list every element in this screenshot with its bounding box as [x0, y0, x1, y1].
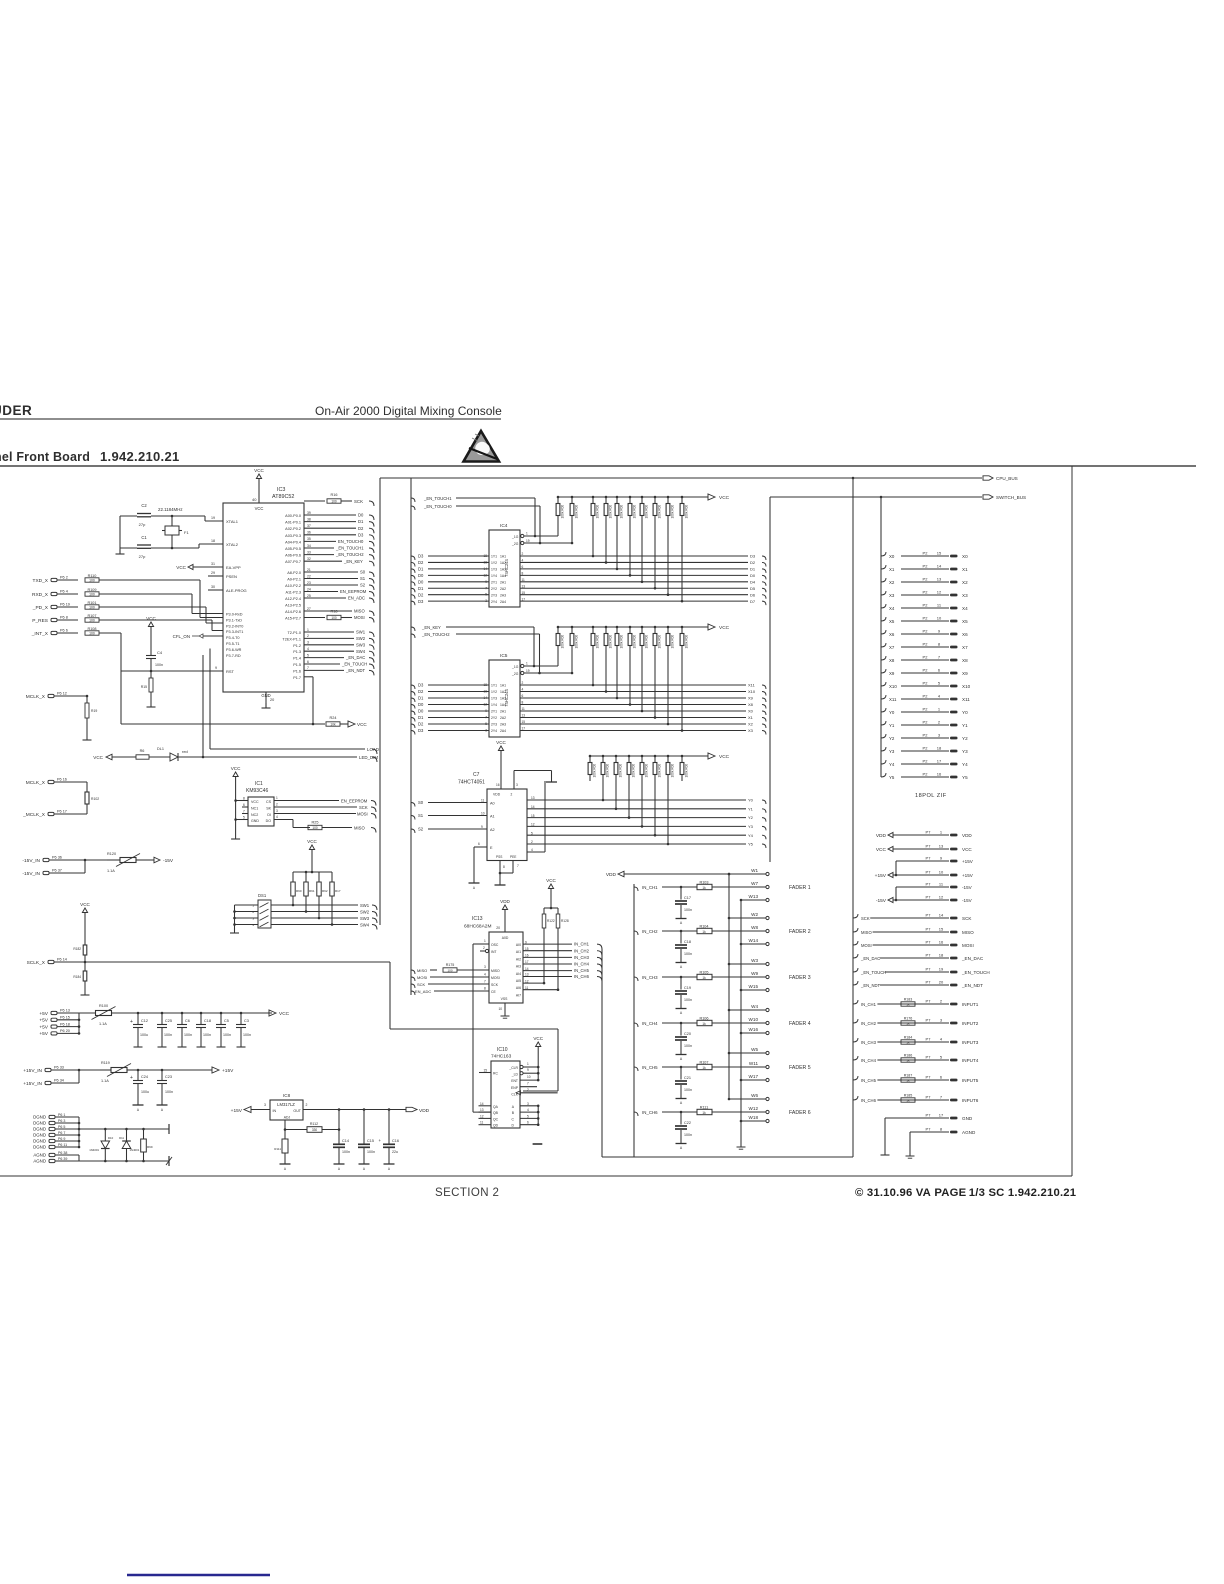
wire C7 bottom pins PSS PEE to ground [499, 861, 501, 886]
svg-text:27p: 27p [139, 554, 146, 559]
wire IC3 P0.4 EN_TOUCH0 [304, 540, 336, 542]
diode D11 1N4001 [126, 1129, 128, 1141]
svg-text:37: 37 [307, 524, 311, 528]
svg-text:P6 17: P6 17 [57, 810, 67, 814]
svg-text:A11-P2.3: A11-P2.3 [285, 591, 301, 595]
svg-text:100n: 100n [164, 1033, 172, 1037]
wire IC3 P2.6 MISO [304, 610, 352, 612]
svg-text:IN_CH6: IN_CH6 [574, 974, 590, 979]
svg-text:INPUT4: INPUT4 [962, 1058, 979, 1063]
wire _EN_KEY into IC5 pin 1 [411, 627, 415, 631]
wire IC3 P2.4 EN_ADC [304, 597, 346, 599]
svg-text:15: 15 [937, 551, 942, 556]
svg-text:+5V: +5V [39, 1011, 48, 1017]
svg-text:7: 7 [527, 1082, 529, 1086]
svg-text:PSEN: PSEN [226, 574, 237, 579]
svg-text:P1.4: P1.4 [293, 657, 301, 661]
svg-text:6: 6 [307, 660, 309, 664]
wire IC3 P2.1 S1 [304, 578, 358, 580]
svg-text:VCC: VCC [496, 740, 506, 745]
svg-text:INPUT1: INPUT1 [962, 1002, 979, 1007]
connector P2 pin 17 row Y4 [881, 760, 886, 764]
svg-text:15: 15 [939, 927, 944, 932]
svg-text:D3: D3 [418, 728, 424, 733]
svg-text:1A2: 1A2 [500, 690, 506, 694]
svg-text:SCK: SCK [861, 916, 870, 921]
svg-text:DO: DO [266, 819, 272, 823]
svg-text:100: 100 [331, 499, 337, 503]
regulator IC8 LM317LZ body [270, 1100, 303, 1120]
svg-text:P6 6: P6 6 [60, 629, 68, 633]
svg-text:Y2: Y2 [748, 815, 754, 820]
svg-text:_EN_KEY: _EN_KEY [343, 559, 363, 564]
wire IC10 ABCD inputs [520, 1105, 538, 1107]
svg-text:_EN_DAC: _EN_DAC [345, 655, 365, 660]
svg-text:100k R00: 100k R00 [609, 635, 613, 649]
svg-text:1A1: 1A1 [500, 555, 506, 559]
svg-text:7: 7 [243, 810, 245, 814]
connector P2 pin 5 row X10 [881, 682, 886, 686]
svg-text:16: 16 [496, 783, 500, 787]
svg-text:15: 15 [483, 1069, 487, 1073]
svg-text:F1: F1 [184, 530, 189, 535]
svg-text:+5V: +5V [39, 1018, 48, 1024]
wire IC4 input D3 [411, 556, 415, 560]
svg-text:C22: C22 [684, 1121, 691, 1125]
wire IC4 output row 5 [520, 587, 748, 589]
svg-text:INPUT5: INPUT5 [962, 1078, 979, 1083]
capacitor C12 [137, 1012, 140, 1015]
svg-text:C23: C23 [165, 1075, 172, 1079]
svg-text:1: 1 [276, 796, 278, 800]
wire IC3 P2.0 S0 [304, 571, 358, 573]
wire IC13 OSC pin down to IC10 [473, 943, 489, 945]
svg-text:IN_CH5: IN_CH5 [574, 968, 590, 973]
svg-text:2A3: 2A3 [500, 593, 506, 597]
resistor R182 [84, 938, 86, 945]
svg-text:MISO: MISO [354, 609, 365, 614]
svg-text:X0: X0 [889, 554, 895, 559]
connector P7 pin 8 AGND [910, 1131, 949, 1133]
svg-text:12: 12 [531, 823, 535, 827]
svg-text:X2: X2 [889, 580, 895, 585]
svg-text:D0: D0 [418, 579, 424, 584]
capacitor C22 on fader 6 input [680, 1112, 682, 1125]
svg-text:FADER 4: FADER 4 [789, 1021, 811, 1027]
capacitor C23 [161, 1069, 164, 1072]
svg-text:22.1184MHz: 22.1184MHz [158, 507, 183, 512]
svg-text:EN_ADC: EN_ADC [415, 989, 431, 994]
wire IC5 input D1 [411, 718, 415, 722]
svg-text:W10: W10 [749, 1017, 759, 1022]
svg-text:IC5: IC5 [500, 653, 508, 659]
svg-text:P6 16: P6 16 [57, 778, 67, 782]
wire IC13 AI5 to IN_CH6 [523, 976, 572, 978]
svg-text:P2: P2 [923, 629, 929, 634]
svg-text:SK: SK [266, 807, 271, 811]
svg-text:W16: W16 [749, 1027, 759, 1032]
svg-text:100k R00: 100k R00 [685, 764, 689, 778]
resistor R16 on SCK line [304, 500, 325, 502]
svg-text:34: 34 [307, 544, 311, 548]
wire IC1 DI MOSI [274, 813, 356, 815]
wire C7 output Y1 [527, 808, 746, 810]
svg-text:+: + [130, 1019, 133, 1025]
svg-text:P2: P2 [923, 564, 929, 569]
svg-text:P6 34: P6 34 [54, 1079, 64, 1083]
svg-text:X6: X6 [962, 632, 968, 637]
svg-text:68HC68A2M: 68HC68A2M [464, 924, 491, 930]
bus SWITCH_BUS line [770, 496, 982, 498]
svg-text:P7: P7 [926, 999, 932, 1004]
svg-text:+5V: +5V [39, 1024, 48, 1030]
svg-text:R186: R186 [904, 1054, 913, 1058]
svg-text:19: 19 [939, 967, 944, 972]
svg-text:1.1A: 1.1A [101, 1079, 109, 1083]
wire crystal left rail and ground [119, 516, 121, 553]
svg-text:VCC: VCC [146, 616, 156, 621]
svg-text:SECTION 2: SECTION 2 [435, 1187, 499, 1199]
svg-text:INPUT6: INPUT6 [962, 1098, 979, 1103]
svg-text:C6: C6 [185, 1019, 190, 1023]
svg-text:R109: R109 [87, 588, 96, 592]
svg-text:_EN_NDT: _EN_NDT [860, 983, 881, 988]
connector P7 pin 2 INPUT1 via R183 [853, 1000, 858, 1004]
ground IC3 pin 20 [265, 692, 267, 708]
svg-text:QD: QD [493, 1124, 499, 1128]
svg-text:2A4: 2A4 [500, 729, 506, 733]
svg-text:100k R00: 100k R00 [658, 635, 662, 649]
svg-text:16: 16 [939, 940, 944, 945]
svg-text:X7: X7 [889, 645, 895, 650]
svg-text:ENT: ENT [511, 1079, 518, 1083]
svg-text:7: 7 [307, 666, 309, 670]
svg-text:D11: D11 [119, 1136, 124, 1140]
wire IC5 output row X11 [520, 684, 746, 686]
svg-text:74HCT4051: 74HCT4051 [458, 780, 485, 786]
svg-text:D3: D3 [750, 554, 756, 559]
svg-text:P2: P2 [923, 720, 929, 725]
wire C7 extra stub pins [527, 851, 545, 853]
svg-text:R15: R15 [141, 685, 147, 689]
wire IC5 output row X2 [520, 723, 746, 725]
svg-text:100u: 100u [140, 1033, 148, 1037]
svg-text:P6 11: P6 11 [58, 1143, 67, 1147]
fader box enclosure [633, 884, 635, 1157]
svg-text:D1: D1 [418, 586, 424, 591]
svg-text:P7: P7 [926, 1127, 932, 1132]
svg-text:P2: P2 [923, 681, 929, 686]
svg-text:D1: D1 [418, 567, 424, 572]
svg-text:A15-P2.7: A15-P2.7 [285, 617, 301, 621]
svg-text:IN_CH6: IN_CH6 [861, 1098, 877, 1103]
svg-text:GND: GND [962, 1116, 973, 1121]
svg-text:W18: W18 [749, 1115, 759, 1120]
svg-text:20: 20 [496, 926, 500, 930]
svg-text:R102: R102 [91, 797, 99, 801]
svg-text:R107: R107 [87, 614, 96, 618]
svg-text:9: 9 [215, 666, 217, 670]
svg-text:S0: S0 [360, 570, 366, 575]
svg-text:10: 10 [939, 870, 944, 875]
wire LOAD line [209, 649, 211, 750]
wire _EN_TOUCH2 into IC5 pin 19 [411, 634, 415, 638]
svg-text:P7: P7 [926, 913, 932, 918]
svg-text:QB: QB [493, 1111, 499, 1115]
svg-text:EA-VPP: EA-VPP [226, 565, 241, 570]
svg-text:100: 100 [89, 606, 95, 610]
svg-text:100n: 100n [684, 998, 692, 1002]
svg-text:X4: X4 [962, 606, 968, 611]
svg-text:1N4001: 1N4001 [89, 1148, 99, 1152]
wire IC3 XTAL1 pin 19 [205, 520, 223, 522]
svg-text:C20: C20 [684, 1032, 691, 1036]
svg-text:AI6: AI6 [516, 986, 521, 990]
bubble IC5 enable pins 1 19 [521, 664, 524, 667]
svg-text:Y4: Y4 [889, 762, 895, 767]
svg-text:2Y2: 2Y2 [491, 587, 497, 591]
svg-text:1Y4: 1Y4 [491, 703, 497, 707]
wire IC1 SK SCK [274, 806, 357, 808]
buffer IC5 74HC244 body [489, 660, 520, 737]
wire IC13 AI1 to IN_CH2 [523, 950, 572, 952]
wire IC3 ALE-PROG pin 30 stub [208, 589, 223, 591]
LED DL1 red [170, 753, 178, 761]
wire IC3 P1.1 SW2 [304, 637, 354, 639]
svg-text:UDER: UDER [0, 403, 32, 418]
svg-text:AI2: AI2 [516, 957, 521, 961]
svg-text:X3: X3 [889, 593, 895, 598]
svg-text:OSC: OSC [491, 943, 499, 947]
connector P7 pin 16 MOSI [853, 941, 858, 945]
connector P2 pin 18 row Y3 [881, 747, 886, 751]
svg-text:X2: X2 [962, 580, 968, 585]
svg-text:PEE: PEE [510, 855, 516, 859]
svg-text:_EN_KEY: _EN_KEY [421, 625, 441, 630]
svg-text:SW2: SW2 [360, 909, 370, 914]
wire crystal top rail [120, 515, 137, 517]
svg-text:100k R00: 100k R00 [561, 505, 565, 519]
svg-text:Y1: Y1 [748, 806, 754, 811]
svg-text:P3.3-INT1: P3.3-INT1 [226, 630, 243, 634]
svg-text:17: 17 [937, 759, 942, 764]
svg-text:39: 39 [307, 511, 311, 515]
bus fader ground spine [740, 900, 742, 1143]
svg-text:SW2: SW2 [356, 636, 366, 641]
svg-text:P2: P2 [923, 603, 929, 608]
svg-text:100n: 100n [367, 1150, 375, 1154]
svg-text:1: 1 [526, 532, 528, 536]
svg-text:13: 13 [939, 844, 944, 849]
svg-text:C21: C21 [684, 1076, 691, 1080]
connector P2 pin 2 row Y1 [881, 721, 886, 725]
svg-text:X1: X1 [962, 567, 968, 572]
svg-text:100k R00: 100k R00 [561, 635, 565, 649]
capacitor C16 22u [388, 1110, 390, 1144]
svg-text:3: 3 [264, 1103, 266, 1107]
svg-text:S2: S2 [360, 583, 366, 588]
wire IC13 SCK [411, 984, 415, 988]
svg-text:SCLK_X: SCLK_X [27, 960, 46, 966]
svg-text:_CLR: _CLR [508, 1066, 518, 1070]
svg-text:R112: R112 [310, 1122, 318, 1126]
svg-text:100: 100 [89, 619, 95, 623]
svg-text:D1: D1 [418, 696, 424, 701]
svg-text:C3: C3 [244, 1019, 249, 1023]
svg-text:+15V: +15V [231, 1108, 243, 1114]
svg-text:20: 20 [270, 698, 274, 702]
svg-text:SWITCH_BUS: SWITCH_BUS [996, 495, 1026, 500]
svg-text:+15V_IN: +15V_IN [23, 1081, 42, 1087]
svg-text:MOSI: MOSI [357, 812, 368, 817]
svg-text:P2: P2 [923, 772, 929, 777]
svg-text:DGND: DGND [33, 1121, 46, 1126]
svg-text:P3.7-RD: P3.7-RD [226, 654, 241, 658]
svg-text:VCC: VCC [307, 839, 317, 844]
svg-text:ADJ: ADJ [284, 1116, 291, 1120]
svg-text:A0: A0 [490, 802, 495, 806]
svg-text:1k: 1k [906, 1041, 910, 1045]
svg-text:17: 17 [939, 1113, 944, 1118]
svg-text:A02-P0.2: A02-P0.2 [285, 527, 301, 531]
svg-text:IN_CH3: IN_CH3 [574, 955, 590, 960]
svg-text:1k: 1k [906, 1099, 910, 1103]
connector P2 pin 16 row Y5 [881, 773, 886, 777]
svg-text:18POL ZIF: 18POL ZIF [915, 793, 947, 799]
fader FADER 3 wires [634, 977, 638, 981]
svg-text:_INT_X: _INT_X [31, 631, 49, 637]
svg-text:D1: D1 [418, 715, 424, 720]
svg-text:2A4: 2A4 [500, 600, 506, 604]
bubble IC10 CLK pin 2 [516, 1091, 521, 1095]
svg-text:2Y4: 2Y4 [491, 729, 497, 733]
svg-text:_EN_DAC: _EN_DAC [860, 956, 880, 961]
svg-text:16: 16 [525, 954, 529, 958]
svg-text:2A2: 2A2 [500, 587, 506, 591]
svg-text:1A3: 1A3 [500, 568, 506, 572]
svg-text:Y0: Y0 [748, 798, 754, 803]
svg-text:MCLK_X: MCLK_X [26, 694, 46, 700]
svg-text:_2G: _2G [511, 542, 519, 546]
svg-text:IN_CH1: IN_CH1 [642, 885, 658, 890]
svg-text:On-Air 2000 Digital Mixing Con: On-Air 2000 Digital Mixing Console [315, 404, 502, 418]
fuse R120 1.1A [107, 859, 120, 861]
svg-text:14: 14 [480, 1102, 484, 1106]
svg-text:32: 32 [307, 557, 311, 561]
fuse R119 1.1A [100, 1069, 111, 1071]
svg-text:19: 19 [526, 539, 530, 543]
wire AGND rail [79, 1160, 169, 1162]
wire IC13 AI0 to IN_CH1 [523, 943, 572, 945]
svg-text:P2: P2 [923, 759, 929, 764]
svg-text:P6 14: P6 14 [57, 958, 67, 962]
svg-text:A04-P0.4: A04-P0.4 [285, 540, 301, 544]
svg-text:IC3: IC3 [277, 487, 285, 493]
svg-text:VSS: VSS [501, 997, 509, 1001]
svg-text:+15V_IN: +15V_IN [23, 1068, 42, 1074]
bus vertical right of middle section [769, 497, 771, 862]
svg-text:VCC: VCC [719, 625, 730, 631]
svg-text:100n: 100n [684, 952, 692, 956]
wire IC4 input D0 [411, 582, 415, 586]
svg-text:_LD: _LD [511, 1073, 519, 1077]
connector P2 pin 12 row X3 [881, 591, 886, 595]
svg-text:D3: D3 [418, 599, 424, 604]
svg-text:8: 8 [503, 865, 505, 869]
wire IC5 input D3 [411, 685, 415, 689]
svg-text:EN_EEPROM: EN_EEPROM [341, 799, 368, 804]
wire IC5 output row X9 [520, 697, 746, 699]
wire IC4 input D1 [411, 588, 415, 592]
svg-text:3: 3 [484, 965, 486, 969]
svg-text:C4: C4 [157, 650, 163, 655]
resistor R122 [543, 908, 545, 914]
svg-text:W11: W11 [749, 1061, 759, 1066]
svg-text:R91: R91 [309, 889, 315, 893]
svg-text:17: 17 [525, 960, 529, 964]
wire IC4 output row 0 [520, 555, 748, 557]
svg-text:10: 10 [937, 616, 942, 621]
capacitor C18 on fader 2 input [680, 931, 682, 944]
svg-text:8: 8 [243, 797, 245, 801]
connector P2 pin 13 row X2 [881, 578, 886, 582]
svg-text:4: 4 [527, 1108, 529, 1112]
svg-text:P2: P2 [923, 551, 929, 556]
wire IC5 output row X8 [520, 704, 746, 706]
svg-text:IN_CH6: IN_CH6 [642, 1110, 658, 1115]
svg-text:12: 12 [937, 590, 942, 595]
svg-text:ALE-PROG: ALE-PROG [226, 588, 247, 593]
wire C7 output Y5 [527, 843, 746, 845]
connector P2 pin 1 row Y0 [881, 708, 886, 712]
bubble IC4 enable pins 1 19 [521, 534, 524, 537]
svg-text:+15V: +15V [962, 873, 974, 878]
svg-text:DGND: DGND [33, 1139, 46, 1144]
svg-text:8: 8 [484, 987, 486, 991]
svg-text:INPUT3: INPUT3 [962, 1040, 979, 1045]
svg-text:100k R00: 100k R00 [671, 764, 675, 778]
fader FADER 1 wires [634, 887, 638, 891]
svg-text:AGND: AGND [33, 1159, 46, 1164]
svg-text:1: 1 [484, 939, 486, 943]
svg-text:13: 13 [531, 796, 535, 800]
svg-text:D2: D2 [358, 526, 364, 531]
diode D10 1N4001 [104, 1129, 106, 1141]
svg-text:100k R00: 100k R00 [632, 764, 636, 778]
svg-text:Y2: Y2 [889, 736, 895, 741]
resistor R128 [557, 908, 559, 914]
svg-text:AT89C52: AT89C52 [272, 494, 294, 500]
wire DS1 left common and ground [234, 905, 236, 931]
svg-text:MISO: MISO [354, 826, 365, 831]
svg-text:R18: R18 [331, 610, 338, 614]
svg-text:1Y2: 1Y2 [491, 690, 497, 694]
svg-text:1k: 1k [906, 1079, 910, 1083]
svg-text:C2: C2 [141, 503, 147, 508]
connector P7 pin 19 _EN_TOUCH [853, 968, 858, 972]
svg-text:100n: 100n [203, 1033, 211, 1037]
svg-text:X6: X6 [889, 632, 895, 637]
svg-text:3: 3 [307, 641, 309, 645]
svg-text:4: 4 [531, 848, 533, 852]
svg-text:100k R00: 100k R00 [685, 505, 689, 519]
svg-text:XTAL1: XTAL1 [226, 519, 239, 524]
svg-text:D3: D3 [358, 532, 364, 537]
bus vertical frame of middle section [410, 478, 412, 995]
wire _EN_TOUCH0 into IC4 pin 19 [411, 506, 415, 510]
svg-text:C24: C24 [141, 1075, 148, 1079]
buffer IC4 74HC244 body [489, 530, 520, 607]
